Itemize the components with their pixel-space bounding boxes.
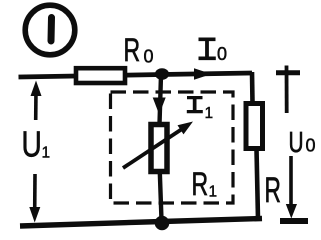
voltage arrow U0 xyxy=(276,66,308,222)
wire: centre vertical branch (through R1) xyxy=(160,75,162,220)
svg-text:0: 0 xyxy=(306,136,316,156)
wire: bottom horizontal xyxy=(20,219,262,227)
resistor R xyxy=(246,104,263,149)
current arrow I0 xyxy=(194,68,212,79)
svg-text:R: R xyxy=(192,166,209,202)
svg-text:1: 1 xyxy=(209,184,218,201)
svg-text:U: U xyxy=(289,127,304,159)
label I0 xyxy=(198,38,215,61)
current arrow I1 xyxy=(153,98,166,115)
junction dot (top node) xyxy=(155,68,169,80)
wire: below R to bottom xyxy=(257,149,259,219)
svg-text:R: R xyxy=(265,171,281,210)
junction dot (bottom node) xyxy=(155,216,170,231)
node label: circled 1 xyxy=(25,5,75,55)
dashed box (R1 two-terminal network) xyxy=(111,92,234,203)
svg-text:1: 1 xyxy=(42,145,51,162)
svg-text:1: 1 xyxy=(205,105,214,122)
rheostat R1 (variable resistor) xyxy=(151,125,167,172)
svg-text:R: R xyxy=(124,32,141,68)
wire: top horizontal xyxy=(19,73,253,77)
rheostat diagonal arrow xyxy=(123,129,182,168)
resistor R0 xyxy=(76,68,125,83)
label I1 xyxy=(187,96,203,113)
svg-text:U: U xyxy=(22,124,42,164)
wire: left vertical branch to R (right side) xyxy=(250,72,255,103)
svg-text:0: 0 xyxy=(217,44,227,64)
svg-text:0: 0 xyxy=(144,47,154,67)
voltage arrow U1 xyxy=(29,81,41,223)
